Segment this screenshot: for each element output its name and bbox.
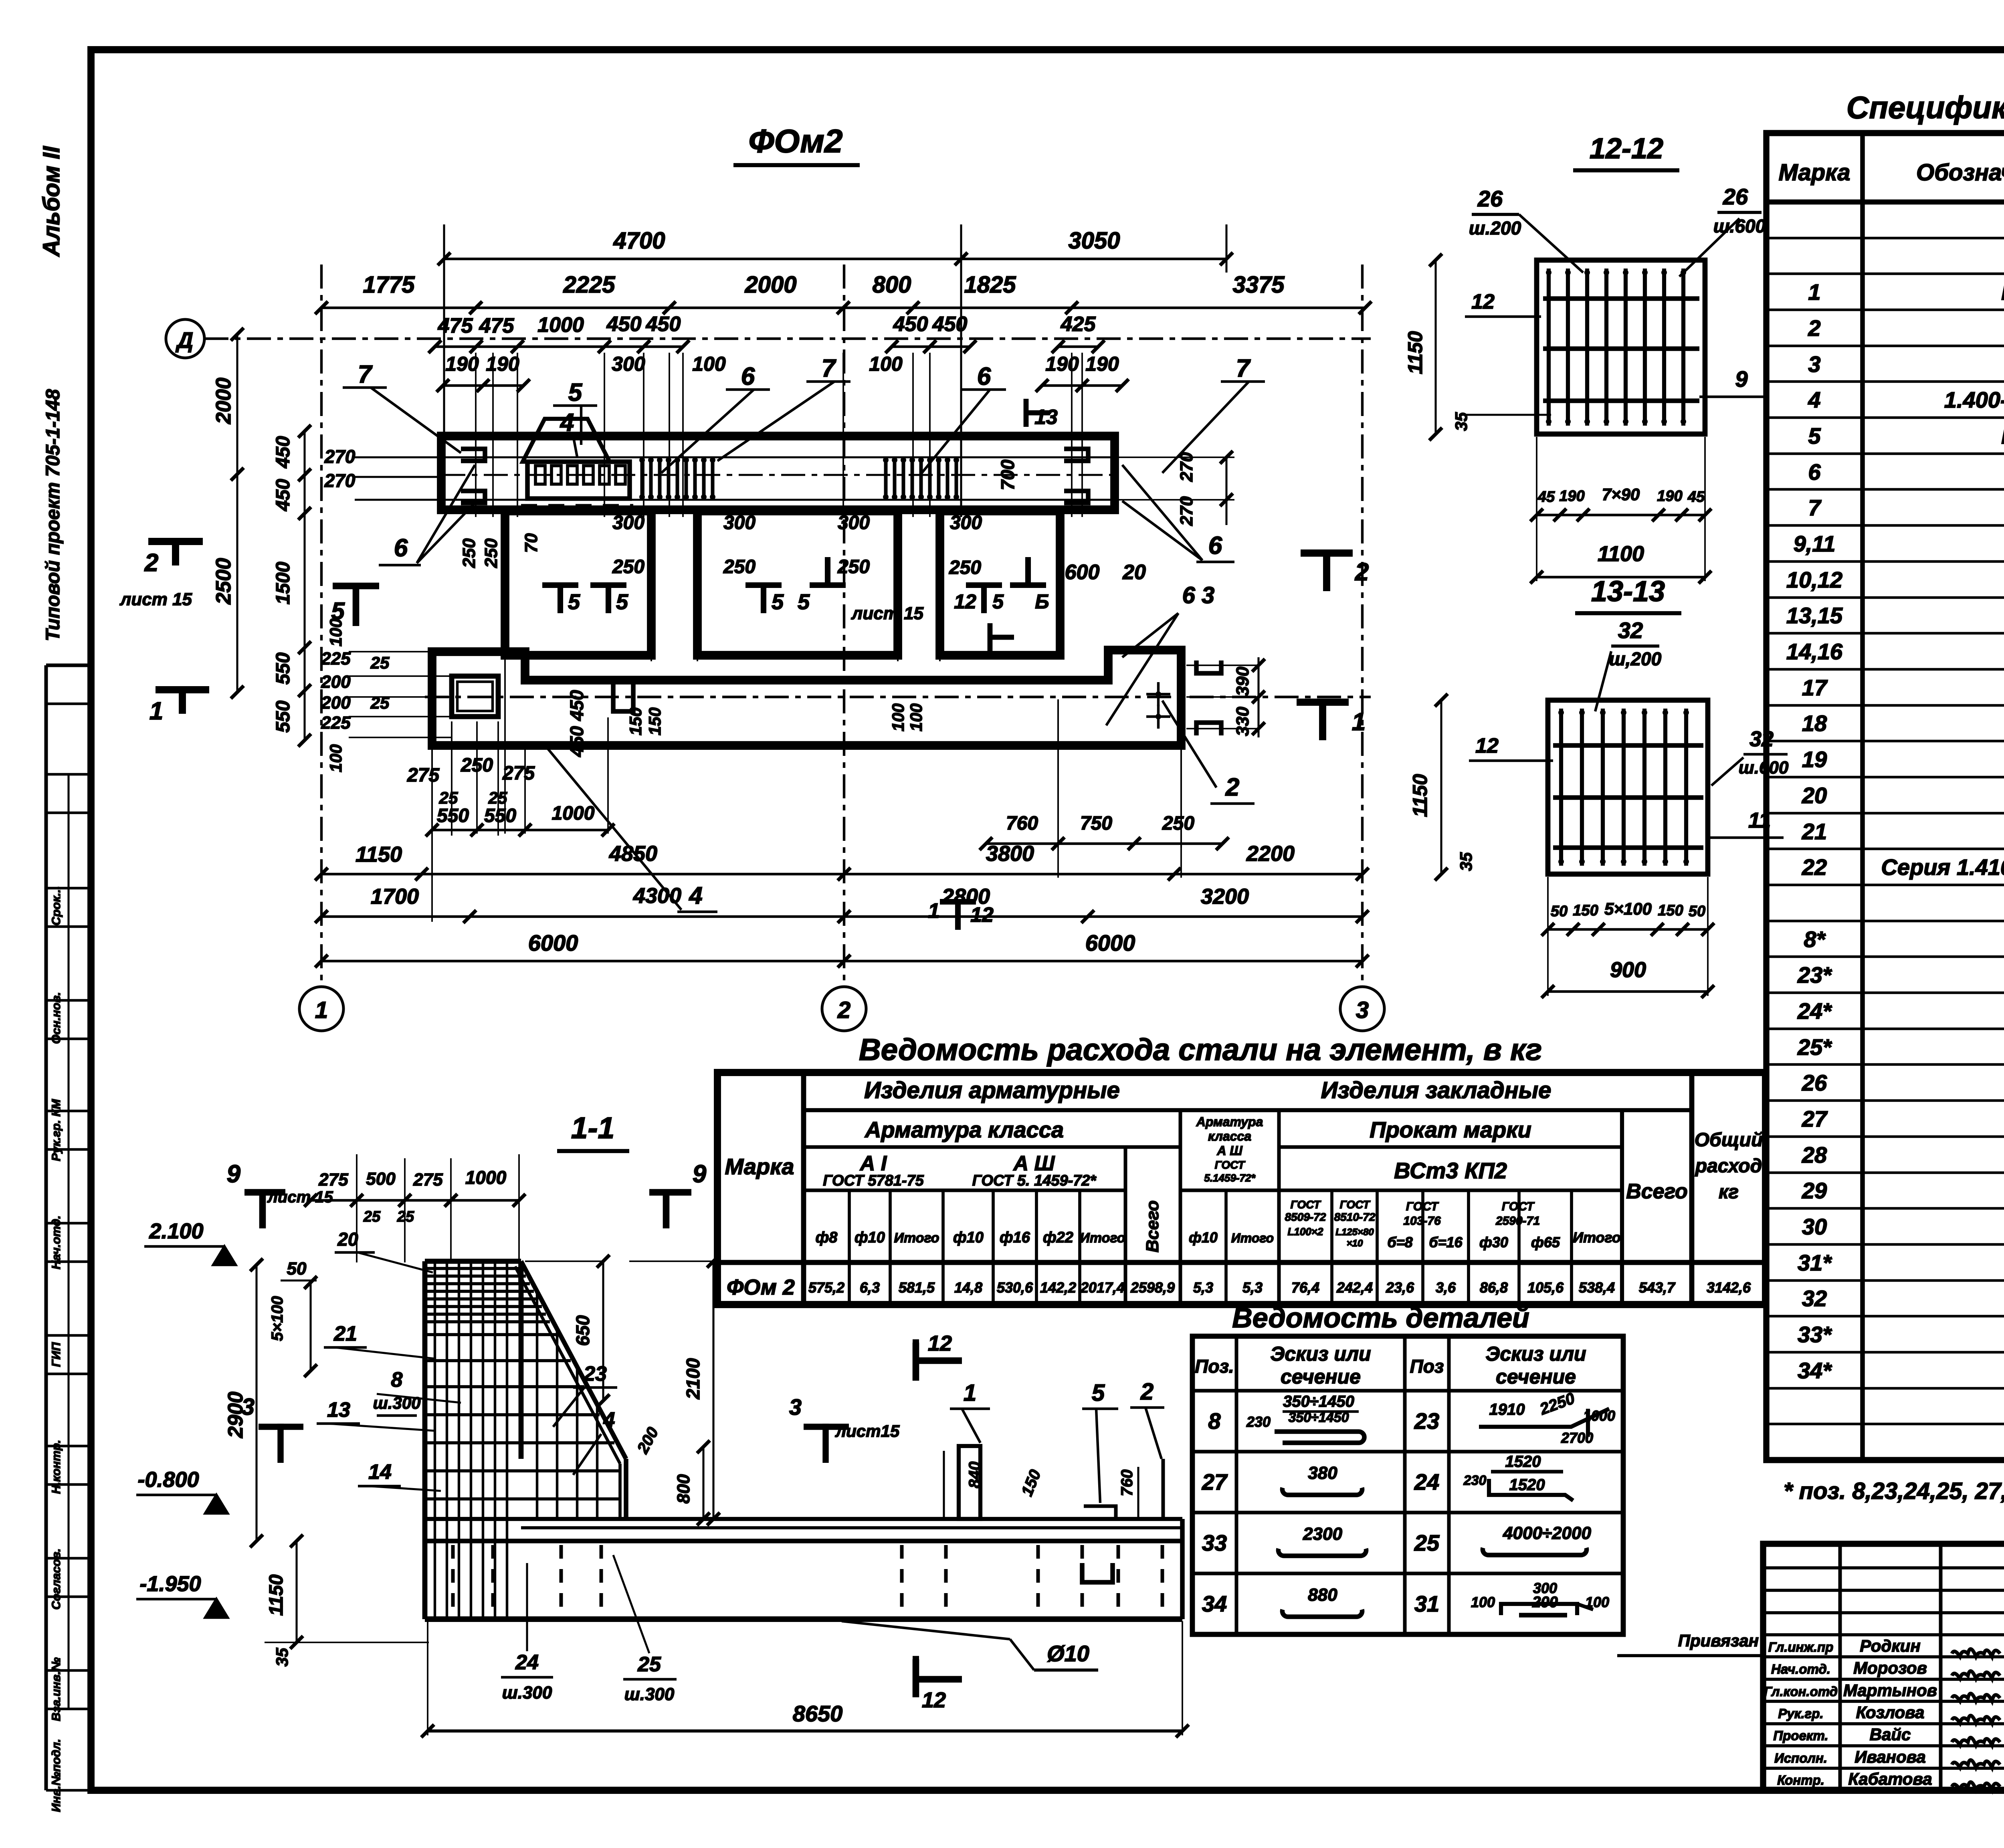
svg-text:3: 3 — [789, 1394, 802, 1420]
svg-text:8650: 8650 — [793, 1701, 843, 1726]
svg-text:Согласов.: Согласов. — [50, 1549, 63, 1610]
svg-text:3142,6: 3142,6 — [1707, 1279, 1751, 1296]
svg-text:34*: 34* — [1798, 1358, 1832, 1383]
svg-text:5: 5 — [1808, 423, 1821, 448]
svg-text:Привязан: Привязан — [1678, 1631, 1759, 1650]
svg-text:ф10: ф10 — [1189, 1229, 1218, 1246]
svg-text:450: 450 — [273, 479, 294, 511]
svg-text:ф22: ф22 — [1043, 1229, 1073, 1246]
plan main dim rows bottom — [321, 873, 1362, 875]
svg-text:1150: 1150 — [1409, 774, 1431, 817]
svg-text:6: 6 — [741, 363, 755, 390]
svg-text:600: 600 — [1065, 561, 1100, 584]
svg-text:1150: 1150 — [356, 842, 402, 866]
svg-text:6,3: 6,3 — [860, 1279, 880, 1296]
plan left dims — [236, 334, 238, 692]
svg-text:2598,9: 2598,9 — [1130, 1279, 1175, 1296]
svg-text:6: 6 — [394, 534, 408, 562]
svg-text:Прокат марки: Прокат марки — [1370, 1117, 1531, 1142]
svg-text:5: 5 — [616, 590, 628, 614]
svg-text:L100×2: L100×2 — [1288, 1226, 1323, 1238]
svg-text:расход: расход — [1695, 1155, 1762, 1177]
svg-text:2000: 2000 — [744, 272, 796, 298]
svg-text:5,3: 5,3 — [1242, 1279, 1263, 1296]
svg-text:3: 3 — [242, 1394, 255, 1420]
svg-text:б=16: б=16 — [1429, 1234, 1463, 1250]
svg-text:27: 27 — [1802, 1106, 1828, 1131]
svg-text:Всего: Всего — [1626, 1180, 1688, 1203]
svg-text:2100: 2100 — [683, 1358, 703, 1400]
svg-text:550: 550 — [273, 652, 294, 685]
svg-text:6: 6 — [977, 363, 991, 390]
svg-text:23: 23 — [583, 1362, 607, 1385]
svg-text:7: 7 — [1808, 495, 1822, 520]
svg-text:21: 21 — [333, 1322, 357, 1345]
svg-text:Козлова: Козлова — [1856, 1703, 1925, 1722]
svg-text:13,15: 13,15 — [1786, 603, 1843, 628]
svg-text:1: 1 — [149, 697, 163, 725]
svg-text:Рук.гр. КМ: Рук.гр. КМ — [50, 1099, 63, 1161]
svg-text:450: 450 — [566, 726, 587, 757]
svg-text:25*: 25* — [1797, 1034, 1832, 1060]
svg-text:270: 270 — [1177, 496, 1196, 526]
svg-text:лист 15: лист 15 — [119, 590, 192, 609]
svg-text:450: 450 — [606, 313, 642, 336]
bottom strip — [432, 650, 1181, 745]
svg-text:5: 5 — [331, 598, 345, 624]
svg-text:190: 190 — [1559, 488, 1584, 505]
svg-text:14: 14 — [368, 1460, 392, 1484]
svg-text:100: 100 — [889, 703, 907, 731]
svg-text:1: 1 — [315, 997, 328, 1023]
svg-text:840: 840 — [966, 1462, 984, 1488]
svg-text:26: 26 — [1723, 184, 1748, 209]
svg-text:Контр.: Контр. — [1777, 1773, 1824, 1787]
svg-text:7×90: 7×90 — [1602, 485, 1640, 504]
svg-text:Б: Б — [1035, 590, 1049, 613]
pit section marks — [542, 582, 578, 588]
svg-text:Осн.нов.: Осн.нов. — [50, 992, 63, 1044]
svg-text:22: 22 — [1802, 854, 1827, 880]
svg-text:Серия 1.410-2 вып.1: Серия 1.410-2 вып.1 — [1881, 854, 2004, 880]
svg-text:200: 200 — [321, 693, 351, 713]
svg-text:450: 450 — [646, 313, 681, 336]
svg-text:1825: 1825 — [964, 272, 1016, 298]
svg-text:9: 9 — [693, 1160, 707, 1188]
svg-text:3: 3 — [1808, 351, 1820, 377]
svg-text:24*: 24* — [1797, 998, 1832, 1024]
svg-text:ф10: ф10 — [953, 1229, 984, 1246]
svg-text:242,4: 242,4 — [1336, 1279, 1373, 1296]
svg-text:35: 35 — [273, 1648, 291, 1666]
svg-text:350÷1450: 350÷1450 — [1283, 1393, 1354, 1410]
svg-text:190: 190 — [445, 353, 479, 375]
svg-text:ш,200: ш,200 — [1609, 648, 1662, 669]
svg-text:ГОСТ: ГОСТ — [1406, 1200, 1439, 1213]
svg-text:9: 9 — [1735, 366, 1747, 392]
svg-text:8*: 8* — [1804, 927, 1826, 952]
svg-text:550: 550 — [437, 805, 469, 826]
svg-text:Вза.инв.№: Вза.инв.№ — [50, 1657, 63, 1721]
svg-text:Изделия закладные: Изделия закладные — [1321, 1077, 1551, 1103]
svg-text:6: 6 — [1208, 532, 1222, 559]
svg-text:5: 5 — [568, 590, 580, 614]
svg-text:4: 4 — [603, 1408, 615, 1432]
svg-text:Ведомость расхода стали на эле: Ведомость расхода стали на элемент, в кг — [859, 1033, 1542, 1067]
svg-text:4300: 4300 — [633, 884, 681, 908]
svg-text:3800: 3800 — [986, 842, 1034, 866]
svg-text:20: 20 — [1122, 561, 1146, 584]
svg-text:ГОСТ 5781-75: ГОСТ 5781-75 — [823, 1172, 924, 1189]
svg-text:12: 12 — [1471, 290, 1495, 313]
svg-text:Родкин: Родкин — [1860, 1636, 1920, 1655]
svg-text:250: 250 — [612, 556, 644, 578]
svg-text:Проект.: Проект. — [1773, 1728, 1828, 1743]
svg-text:300: 300 — [838, 512, 870, 533]
svg-text:450: 450 — [893, 313, 928, 336]
svg-text:Ведомость деталей: Ведомость деталей — [1232, 1302, 1529, 1333]
svg-text:150: 150 — [1658, 902, 1683, 919]
svg-text:1: 1 — [1808, 279, 1820, 305]
svg-text:Нач.отд.: Нач.отд. — [50, 1216, 63, 1270]
svg-text:530,6: 530,6 — [997, 1279, 1033, 1296]
svg-text:5×100: 5×100 — [269, 1296, 286, 1341]
svg-text:550: 550 — [484, 805, 516, 826]
svg-text:4: 4 — [560, 409, 574, 436]
svg-text:6: 6 — [1808, 459, 1821, 485]
svg-text:550: 550 — [273, 701, 294, 733]
svg-text:2: 2 — [1140, 1379, 1154, 1405]
svg-text:538,4: 538,4 — [1579, 1279, 1615, 1296]
svg-text:34: 34 — [1202, 1591, 1227, 1616]
svg-text:Эскиз или: Эскиз или — [1485, 1343, 1586, 1365]
svg-text:Всего: Всего — [1143, 1200, 1162, 1252]
svg-text:250: 250 — [949, 557, 981, 578]
svg-text:Арматура: Арматура — [1196, 1115, 1263, 1129]
svg-text:14,16: 14,16 — [1786, 639, 1843, 664]
svg-text:12: 12 — [1475, 734, 1499, 757]
svg-text:250: 250 — [837, 556, 870, 578]
svg-text:Рук.гр.: Рук.гр. — [1778, 1706, 1823, 1721]
svg-text:300: 300 — [950, 512, 982, 533]
svg-text:12: 12 — [922, 1688, 946, 1712]
svg-text:Инв.№подл.: Инв.№подл. — [50, 1739, 63, 1812]
svg-text:8510-72: 8510-72 — [1334, 1211, 1376, 1223]
svg-text:9: 9 — [227, 1160, 241, 1188]
svg-text:Итого: Итого — [1573, 1229, 1621, 1246]
svg-text:275: 275 — [502, 763, 535, 784]
svg-text:ФОм2: ФОм2 — [748, 123, 842, 160]
svg-text:2300: 2300 — [1303, 1524, 1342, 1544]
svg-text:ГОСТ: ГОСТ — [1215, 1159, 1246, 1171]
plan side flags — [148, 538, 203, 545]
svg-text:Обозначение: Обозначение — [1916, 160, 2004, 186]
svg-text:5: 5 — [1092, 1380, 1105, 1406]
svg-text:1910: 1910 — [1489, 1401, 1525, 1418]
svg-text:19: 19 — [1802, 747, 1827, 772]
plan axes — [204, 337, 1371, 340]
svg-text:100: 100 — [692, 353, 726, 375]
svg-text:8: 8 — [1208, 1408, 1221, 1434]
svg-text:230: 230 — [1246, 1414, 1271, 1430]
svg-text:33*: 33* — [1798, 1322, 1832, 1347]
svg-text:100: 100 — [869, 353, 903, 375]
svg-text:103-76: 103-76 — [1403, 1214, 1441, 1228]
svg-text:18: 18 — [1802, 711, 1827, 736]
svg-text:581,5: 581,5 — [899, 1279, 935, 1296]
svg-text:150: 150 — [626, 707, 645, 735]
svg-text:390: 390 — [1233, 666, 1252, 696]
svg-text:25: 25 — [637, 1653, 661, 1676]
svg-text:Гл.инж.пр: Гл.инж.пр — [1768, 1640, 1834, 1654]
svg-text:270: 270 — [324, 470, 356, 491]
svg-text:1: 1 — [964, 1380, 976, 1406]
svg-text:24: 24 — [515, 1651, 539, 1674]
svg-text:5.1459-72*: 5.1459-72* — [1204, 1172, 1256, 1184]
svg-text:8509-72: 8509-72 — [1285, 1211, 1326, 1223]
svg-text:50: 50 — [287, 1259, 307, 1278]
svg-text:4: 4 — [1808, 387, 1820, 412]
svg-text:1520: 1520 — [1505, 1453, 1541, 1470]
svg-text:25: 25 — [363, 1208, 381, 1225]
svg-text:7: 7 — [822, 355, 836, 382]
svg-text:ш.300: ш.300 — [624, 1684, 675, 1704]
svg-text:3050: 3050 — [1068, 228, 1120, 254]
svg-text:13-13: 13-13 — [1591, 576, 1665, 608]
svg-text:1: 1 — [1352, 708, 1366, 736]
svg-text:45: 45 — [1687, 489, 1705, 505]
svg-text:ф16: ф16 — [1000, 1229, 1030, 1246]
svg-text:35: 35 — [1457, 852, 1475, 871]
svg-text:Поз.: Поз. — [1195, 1356, 1234, 1377]
svg-text:Общий: Общий — [1695, 1129, 1763, 1151]
plan right dims — [1225, 457, 1227, 525]
svg-text:650: 650 — [572, 1315, 593, 1346]
svg-text:11: 11 — [1748, 808, 1771, 832]
svg-text:7: 7 — [1236, 355, 1251, 382]
svg-text:Вайс: Вайс — [1870, 1725, 1911, 1744]
svg-text:Альбом II: Альбом II — [38, 145, 65, 257]
svg-text:5: 5 — [568, 379, 583, 406]
svg-text:28: 28 — [1802, 1142, 1827, 1167]
svg-text:142,2: 142,2 — [1040, 1279, 1076, 1296]
svg-text:23: 23 — [1414, 1408, 1439, 1434]
svg-text:1.400-15 вып.1: 1.400-15 вып.1 — [1944, 387, 2004, 412]
svg-text:L125×80: L125×80 — [1335, 1227, 1374, 1238]
svg-text:ГОСТ 5. 1459-72*: ГОСТ 5. 1459-72* — [972, 1172, 1097, 1189]
svg-text:25: 25 — [370, 653, 390, 672]
anchor plate trapezoid — [523, 419, 610, 462]
svg-text:100: 100 — [326, 744, 345, 772]
svg-text:26: 26 — [1802, 1070, 1827, 1095]
svg-text:2225: 2225 — [563, 272, 615, 298]
svg-text:3200: 3200 — [1201, 885, 1249, 909]
svg-text:100: 100 — [907, 703, 925, 731]
svg-text:Н.контр.: Н.контр. — [50, 1440, 63, 1494]
svg-text:Мартынов: Мартынов — [1843, 1681, 1937, 1700]
svg-text:25: 25 — [397, 1208, 414, 1225]
svg-text:Нач.отд.: Нач.отд. — [1771, 1662, 1830, 1676]
svg-text:230: 230 — [1463, 1473, 1487, 1488]
svg-text:А I: А I — [859, 1152, 887, 1175]
svg-text:450: 450 — [566, 690, 587, 721]
svg-text:12-12: 12-12 — [1590, 133, 1663, 165]
svg-text:Срок...: Срок... — [50, 886, 63, 926]
svg-text:13: 13 — [327, 1398, 350, 1422]
svg-text:лист 15: лист 15 — [267, 1188, 333, 1206]
svg-text:4: 4 — [689, 882, 702, 909]
svg-text:кг: кг — [1719, 1182, 1739, 1203]
svg-text:70: 70 — [521, 533, 541, 553]
svg-text:1150: 1150 — [1404, 331, 1426, 374]
svg-text:270: 270 — [324, 446, 356, 467]
svg-text:12: 12 — [954, 590, 976, 613]
svg-text:23,6: 23,6 — [1386, 1279, 1414, 1296]
svg-text:800: 800 — [873, 272, 911, 298]
svg-text:ФОм 2: ФОм 2 — [727, 1275, 795, 1299]
svg-text:ш.300: ш.300 — [502, 1683, 552, 1703]
pits — [505, 511, 651, 655]
svg-text:1100: 1100 — [1598, 542, 1644, 566]
svg-text:300: 300 — [612, 353, 645, 375]
svg-text:25: 25 — [370, 693, 390, 712]
svg-text:20: 20 — [1802, 783, 1827, 808]
svg-text:1775: 1775 — [363, 272, 415, 298]
svg-text:2000: 2000 — [212, 378, 235, 424]
svg-text:лист 15: лист 15 — [851, 604, 924, 623]
svg-text:2: 2 — [1225, 774, 1239, 801]
svg-text:ш.600: ш.600 — [1739, 758, 1789, 778]
svg-text:50: 50 — [1689, 903, 1705, 920]
svg-text:275: 275 — [318, 1170, 348, 1190]
svg-text:×10: ×10 — [1347, 1238, 1363, 1249]
svg-text:7: 7 — [358, 361, 373, 388]
svg-text:Арматура класса: Арматура класса — [864, 1117, 1064, 1142]
svg-text:4700: 4700 — [613, 228, 665, 254]
svg-text:Марка: Марка — [725, 1154, 794, 1179]
svg-text:760: 760 — [1006, 813, 1038, 834]
svg-text:2200: 2200 — [1246, 842, 1295, 866]
svg-text:ГОСТ: ГОСТ — [1502, 1200, 1535, 1213]
svg-text:Изделия арматурные: Изделия арматурные — [864, 1077, 1120, 1103]
svg-text:300: 300 — [723, 512, 756, 533]
plan dimension rows top — [444, 258, 1226, 260]
svg-text:330: 330 — [1233, 707, 1252, 736]
svg-text:32: 32 — [1618, 618, 1643, 643]
svg-text:б=8: б=8 — [1387, 1234, 1412, 1250]
svg-text:190: 190 — [1045, 353, 1079, 375]
svg-text:20: 20 — [337, 1229, 358, 1250]
svg-text:900: 900 — [1610, 958, 1646, 982]
svg-text:1150: 1150 — [266, 1574, 287, 1616]
svg-text:2800: 2800 — [941, 885, 990, 909]
top band outline — [441, 436, 1115, 510]
svg-text:Спецификация к фундаменту ФОм2: Спецификация к фундаменту ФОм2 — [1846, 90, 2004, 125]
svg-text:50: 50 — [1551, 903, 1568, 920]
title block — [1763, 1544, 2004, 1790]
svg-text:14,8: 14,8 — [954, 1279, 982, 1296]
svg-text:ГОСТ: ГОСТ — [1340, 1198, 1371, 1211]
svg-text:5: 5 — [992, 590, 1004, 613]
svg-text:1000: 1000 — [537, 313, 584, 337]
svg-text:2500: 2500 — [212, 558, 235, 605]
svg-text:2: 2 — [1355, 558, 1369, 586]
svg-text:100: 100 — [1471, 1594, 1495, 1610]
svg-text:250: 250 — [1162, 813, 1194, 834]
svg-text:880: 880 — [1308, 1585, 1337, 1605]
svg-text:29: 29 — [1802, 1178, 1827, 1203]
svg-text:3,6: 3,6 — [1436, 1279, 1456, 1296]
svg-text:ГОСТ: ГОСТ — [1291, 1198, 1322, 1211]
svg-text:31*: 31* — [1798, 1250, 1832, 1275]
svg-text:6000: 6000 — [1085, 930, 1135, 955]
svg-text:270: 270 — [1177, 452, 1196, 482]
svg-text:32: 32 — [1749, 727, 1774, 751]
svg-text:2: 2 — [1808, 315, 1820, 341]
svg-text:Исполн.: Исполн. — [1774, 1751, 1827, 1765]
svg-text:425: 425 — [1061, 313, 1096, 336]
svg-text:575,2: 575,2 — [808, 1279, 844, 1296]
svg-text:Ø10: Ø10 — [1047, 1641, 1089, 1666]
svg-text:105,6: 105,6 — [1527, 1279, 1564, 1296]
svg-text:ш.200: ш.200 — [1469, 218, 1521, 238]
svg-text:31: 31 — [1414, 1591, 1439, 1616]
svg-text:2700: 2700 — [1561, 1430, 1593, 1446]
svg-text:2.100: 2.100 — [149, 1219, 203, 1243]
svg-text:750: 750 — [1080, 813, 1112, 834]
svg-text:Д: Д — [176, 327, 193, 353]
svg-text:190: 190 — [1085, 353, 1119, 375]
svg-text:225: 225 — [321, 649, 351, 669]
svg-text:1500: 1500 — [273, 561, 294, 604]
svg-text:25: 25 — [1414, 1530, 1440, 1555]
svg-text:13: 13 — [1034, 406, 1058, 429]
svg-text:КЖИ-Мн7: КЖИ-Мн7 — [2001, 423, 2004, 448]
svg-text:-1.950: -1.950 — [139, 1572, 201, 1596]
svg-text:сечение: сечение — [1281, 1365, 1361, 1388]
svg-text:190: 190 — [486, 353, 519, 375]
svg-text:86,8: 86,8 — [1480, 1279, 1508, 1296]
svg-text:1000: 1000 — [552, 803, 595, 824]
svg-text:200: 200 — [321, 672, 351, 692]
svg-text:32: 32 — [1802, 1286, 1827, 1311]
svg-text:760: 760 — [1118, 1470, 1136, 1497]
svg-text:сечение: сечение — [1496, 1365, 1576, 1388]
svg-text:-0.800: -0.800 — [137, 1468, 199, 1492]
svg-text:Марка: Марка — [1778, 160, 1850, 186]
svg-text:150: 150 — [645, 707, 664, 735]
svg-text:475: 475 — [479, 314, 515, 337]
svg-text:275: 275 — [413, 1170, 443, 1190]
svg-text:21: 21 — [1802, 819, 1827, 844]
svg-text:250: 250 — [481, 538, 501, 568]
svg-text:Кабатова: Кабатова — [1848, 1769, 1932, 1788]
svg-text:250: 250 — [459, 538, 479, 568]
svg-text:1700: 1700 — [371, 885, 419, 909]
svg-text:8: 8 — [391, 1368, 403, 1392]
svg-text:27: 27 — [1202, 1469, 1228, 1495]
svg-text:450: 450 — [932, 313, 968, 336]
svg-text:250: 250 — [723, 556, 756, 578]
svg-text:12: 12 — [928, 1331, 952, 1355]
svg-text:ф10: ф10 — [855, 1229, 885, 1246]
svg-text:25: 25 — [439, 788, 458, 807]
svg-text:500: 500 — [366, 1169, 396, 1189]
svg-text:380: 380 — [1308, 1463, 1337, 1483]
svg-text:6 3: 6 3 — [1182, 582, 1215, 608]
svg-text:225: 225 — [321, 713, 351, 733]
svg-text:30: 30 — [1802, 1214, 1827, 1239]
